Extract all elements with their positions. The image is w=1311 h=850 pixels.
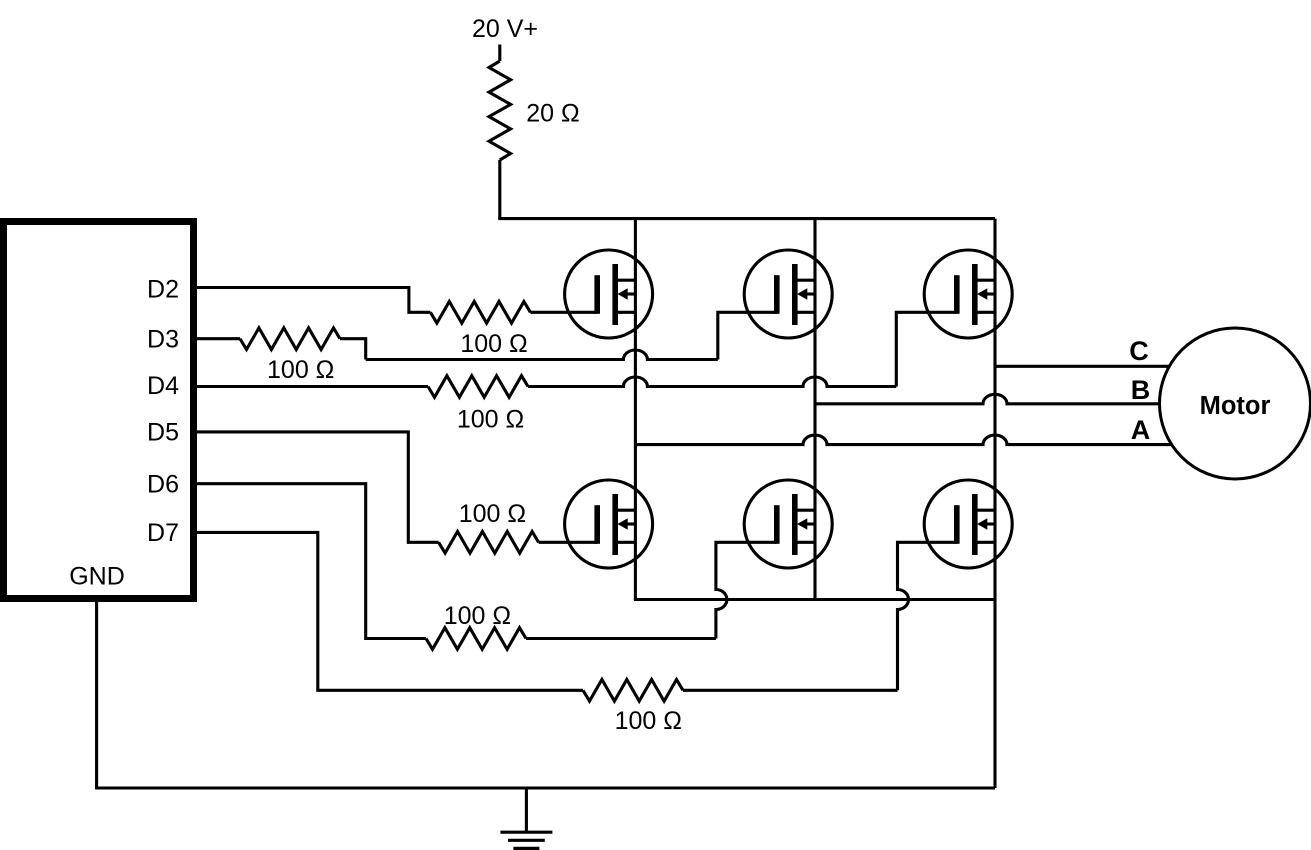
wire D7 from pin	[193, 532, 583, 690]
transistor Q6 low-side phase A	[924, 480, 1012, 568]
wire half-bridge column 3 (drain-source lead)	[993, 219, 996, 788]
svg-text:100 Ω: 100 Ω	[459, 500, 526, 528]
transistor Q2 high-side phase B	[744, 250, 832, 338]
svg-text:D6: D6	[147, 471, 179, 499]
svg-text:D7: D7	[147, 519, 179, 547]
wire top rail	[498, 217, 995, 220]
wire GND pin down	[95, 598, 98, 788]
wire R5 to riser	[526, 637, 716, 640]
wire supply stub	[498, 45, 501, 62]
wire R1 to Q1 gate	[530, 311, 597, 314]
resistor R_supply 20 ohm	[489, 61, 511, 160]
svg-text:D3: D3	[147, 326, 179, 354]
svg-text:D2: D2	[147, 276, 179, 304]
wire D6 riser with hop over source bus, to Q5 gate	[716, 542, 777, 638]
wire half-bridge column 1 (drain-source lead)	[634, 219, 637, 600]
wire half-bridge column 2 (drain-source lead)	[813, 219, 816, 600]
transistor Q4 low-side phase C	[565, 480, 653, 568]
wire D3 from pin	[193, 337, 240, 340]
transistor Q5 low-side phase B	[744, 480, 832, 568]
svg-text:B: B	[1131, 375, 1151, 405]
svg-text:20 V+: 20 V+	[472, 15, 538, 43]
resistor R3 100 ohm (D4 gate)	[428, 376, 528, 398]
svg-text:20 Ω: 20 Ω	[526, 100, 579, 128]
transistor Q1 high-side phase C	[565, 250, 653, 338]
svg-text:100 Ω: 100 Ω	[267, 356, 334, 384]
wire low-side source bus	[634, 598, 995, 601]
resistor R1 100 ohm (D2 gate)	[430, 302, 530, 324]
microcontroller U1 (Arduino pin header box)	[4, 222, 194, 599]
svg-text:A: A	[1131, 415, 1151, 445]
wire R4 to Q4 gate	[539, 541, 598, 544]
svg-text:C: C	[1129, 336, 1149, 366]
wire D4 run with hops over columns 1 and 2	[528, 377, 896, 387]
svg-text:D4: D4	[147, 372, 179, 400]
svg-text:GND: GND	[69, 562, 125, 590]
wire R6 to riser	[683, 689, 898, 692]
wire phase C to motor	[995, 365, 1169, 368]
svg-text:Motor: Motor	[1200, 392, 1271, 420]
resistor R4 100 ohm (D5 gate)	[439, 532, 539, 554]
svg-text:D5: D5	[147, 419, 179, 447]
wire D3 riser to Q2 gate	[718, 312, 777, 359]
wire D4 from pin	[193, 385, 428, 388]
wire D2 from pin	[193, 288, 430, 313]
svg-text:100 Ω: 100 Ω	[615, 707, 682, 735]
resistor R2 100 ohm (D3 gate)	[240, 328, 340, 350]
wire D4 riser to Q3 gate	[896, 312, 957, 386]
motor M1	[1160, 328, 1311, 479]
wire D6 from pin	[193, 484, 426, 639]
resistor R6 100 ohm (D7 gate)	[583, 680, 683, 702]
svg-text:100 Ω: 100 Ω	[457, 406, 524, 434]
wire D5 from pin	[193, 432, 439, 542]
transistor Q3 high-side phase A	[924, 250, 1012, 338]
wire R2 to jog down	[340, 339, 366, 360]
wire phase B to motor with hop over column 3	[815, 394, 1160, 404]
wire phase A to motor with hops over columns 2 and 3	[635, 435, 1171, 445]
resistor R5 100 ohm (D6 gate)	[426, 628, 526, 650]
wire ground rail	[95, 786, 995, 789]
ground symbol	[525, 788, 528, 832]
wire D7 riser with hop over source bus, to Q6 gate	[898, 542, 957, 690]
wire D3 run with hop over column 1	[366, 350, 718, 360]
svg-text:100 Ω: 100 Ω	[444, 602, 511, 630]
wire supply to rail	[498, 160, 501, 219]
svg-text:100 Ω: 100 Ω	[460, 330, 527, 358]
